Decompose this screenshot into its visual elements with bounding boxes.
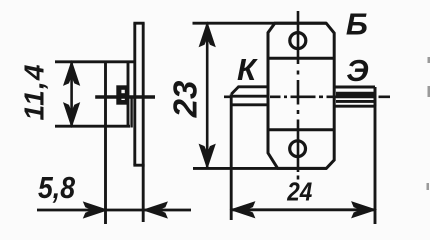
- 24 left extension line + tab left edge: [230, 94, 233, 220]
- lead wire (side view): [95, 95, 155, 99]
- lower divider line: [268, 128, 334, 131]
- dimension 5,8 line: [37, 209, 191, 212]
- dimension 23 top extension + plate top edge: [193, 22, 327, 25]
- flange plate (side view) top edge: [133, 22, 144, 25]
- svg-text:К: К: [237, 52, 258, 87]
- edge smudges (scan artifacts): [427, 57, 430, 190]
- svg-text:11,4: 11,4: [19, 64, 50, 120]
- 5,8 right arrow (points left, sits outside): [145, 203, 167, 218]
- vertical centerline: [297, 11, 300, 180]
- bottom hole: [290, 141, 306, 157]
- plate outline (front view, chamfered corners): [268, 23, 334, 168]
- dimension 23 bottom extension + plate bottom edge: [193, 167, 327, 170]
- dimension 23 line: [206, 24, 209, 168]
- 24 left arrow: [232, 203, 254, 218]
- 11,4 up arrow: [64, 63, 79, 85]
- svg-text:23: 23: [167, 81, 204, 119]
- body left edge + 5,8 left extension line: [104, 62, 107, 224]
- flange plate (side view) left edge: [133, 23, 136, 165]
- 5,8 left arrow (points right, sits outside): [84, 203, 106, 218]
- left tab (K lead): [231, 87, 268, 105]
- horizontal centerline: [224, 96, 390, 99]
- body right edge: [127, 62, 130, 128]
- 24 right extension line: [374, 87, 377, 224]
- wire: body bottom edge / 11,4 lower extension line: [55, 125, 130, 128]
- svg-text:Э: Э: [346, 53, 368, 88]
- 23 up arrow: [200, 24, 215, 46]
- lead weld clamp (filled): [116, 85, 127, 104]
- short line right of body: [130, 97, 132, 128]
- dimension 11,4 line: [70, 63, 73, 125]
- svg-text:24: 24: [286, 177, 312, 207]
- 24 right arrow: [353, 203, 375, 218]
- 11,4 down arrow: [64, 104, 79, 126]
- right tab top face thick band: [336, 92, 375, 98]
- flange plate (side view) bottom edge: [133, 164, 144, 167]
- dimension 24 line: [232, 208, 375, 211]
- top hole: [290, 33, 306, 49]
- upper divider line: [268, 57, 334, 60]
- svg-text:5,8: 5,8: [38, 170, 76, 205]
- svg-text:Б: Б: [346, 7, 368, 42]
- right tab (E lead): [334, 87, 375, 106]
- flange plate (side view) right edge + 5,8 right extension line: [142, 23, 145, 222]
- wire: body top edge / 11,4 upper extension line: [55, 60, 136, 63]
- 23 down arrow: [200, 145, 215, 167]
